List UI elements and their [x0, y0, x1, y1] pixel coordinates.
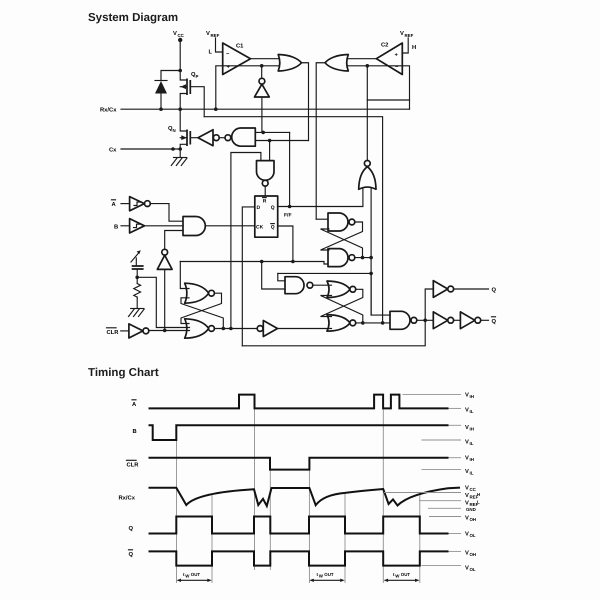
input buffer B (schmitt) [114, 219, 144, 233]
wire G3 right input [370, 188, 372, 315]
gridline t1 [176, 441, 178, 583]
wire INV3 output to latch L3 [278, 328, 332, 330]
wire L1 cross-couple bottom-to-top [181, 298, 223, 329]
svg-text:IH: IH [470, 457, 474, 462]
node VREF L [206, 31, 223, 56]
svg-text:IL: IL [470, 441, 474, 446]
wire Qp-gate net to output NAND [204, 117, 382, 323]
svg-text:Q: Q [129, 525, 134, 532]
input buffer A-bar (schmitt inverter) [112, 197, 151, 211]
svg-text:A: A [112, 202, 117, 208]
svg-text:IH: IH [470, 427, 474, 432]
svg-text:System Diagram: System Diagram [88, 12, 178, 24]
NAND latch L2 bottom gate [328, 249, 355, 267]
wire L3 output to output NAND [356, 322, 390, 324]
wire C1 plus input to Rx/Cx [216, 66, 279, 109]
node junction VCC/diode [178, 69, 182, 73]
gridline t3 [308, 470, 310, 583]
svg-text:V: V [465, 456, 469, 462]
svg-text:W: W [395, 574, 400, 579]
OR gate G1 [278, 55, 301, 72]
wire L2 cross-couple bottom-to-top [321, 229, 363, 258]
node C1 plus line junction [260, 64, 264, 68]
node L2out net junction [369, 272, 373, 276]
svg-text:Q: Q [492, 287, 497, 294]
svg-text:OUT: OUT [401, 572, 411, 577]
wire C1 output [251, 58, 279, 60]
svg-text:N: N [173, 128, 176, 133]
wire G3 left input [362, 188, 364, 206]
wire INV2 down to CLR line [164, 269, 166, 330]
NOR gate L3 top [327, 281, 356, 298]
svg-text:V: V [465, 440, 469, 446]
wire Q branch up [425, 289, 433, 320]
inverter INV4 (Q output) [433, 281, 453, 298]
wire N2 right input [269, 141, 271, 161]
svg-text:CLR: CLR [127, 462, 140, 469]
svg-text:A: A [132, 402, 137, 408]
svg-text:V: V [465, 516, 469, 522]
wire N3 top input from L2 output net [278, 273, 285, 280]
label tW OUT 1 [177, 572, 212, 582]
gridline t3 end [344, 493, 346, 583]
flip-flop F/F box [255, 196, 292, 237]
svg-text:−: − [226, 52, 230, 58]
wire N1 input A from inverter chain [255, 131, 289, 133]
svg-text:OH: OH [470, 552, 477, 557]
AND gate G4 [183, 217, 205, 236]
waveform Rx/Cx [119, 488, 462, 509]
transistor Qn [168, 109, 190, 156]
wire L2 output [355, 257, 371, 259]
wire L2 cross-couple top-to-bottom [321, 222, 363, 250]
wire AND output to FF CK [205, 225, 255, 227]
wire Qn gate [190, 137, 198, 139]
svg-text:CLR: CLR [107, 329, 120, 336]
waveform A-bar [132, 395, 461, 409]
wire N2 output to FF R [264, 186, 266, 196]
node L2 output junctions [361, 256, 365, 260]
wire CLR line to NOR latch [149, 330, 190, 332]
svg-text:+: + [395, 53, 399, 59]
capacitor C [132, 266, 144, 277]
wire G1 output down [302, 63, 309, 141]
svg-text:Timing Chart: Timing Chart [88, 367, 159, 379]
wire L2out net horizontal [278, 272, 371, 274]
label tW OUT 2 [309, 572, 344, 582]
wire to Q terminal [454, 288, 489, 290]
wire to Q-bar terminal [481, 319, 489, 321]
wire cross link to C2 minus vertical [367, 99, 409, 101]
svg-text:W: W [185, 574, 190, 579]
wire L2 top input [316, 218, 328, 220]
output NAND N4 [390, 311, 417, 329]
svg-text:V: V [206, 31, 210, 37]
trimmer arrow [131, 253, 139, 263]
svg-text:V: V [465, 493, 469, 499]
svg-text:B: B [114, 225, 118, 231]
svg-text:Cx: Cx [109, 147, 117, 154]
NAND N1 (left facing) [225, 128, 255, 146]
wire L3 cross-couple bottom-to-top [321, 296, 363, 323]
inverter INV2 (pointing up, CLR to AND) [157, 249, 172, 269]
gridline t2 [254, 409, 256, 571]
wire FF Q-bar output [278, 226, 293, 262]
svg-text:V: V [465, 425, 469, 431]
ground below Qn [171, 158, 187, 166]
inverter INV1 below C1 (pointing up) [255, 78, 270, 97]
wire INV5 to INV6 [454, 319, 461, 321]
transistor Qp [180, 71, 198, 110]
wire L1 output [214, 328, 257, 330]
svg-text:V: V [465, 501, 469, 507]
inverter INV6 (Q-bar chain 2) [460, 312, 480, 329]
wire Cx line [109, 147, 180, 154]
node L1 output junctions [222, 327, 226, 331]
inverter on Qn gate (left pointing, input bubble) [198, 130, 219, 146]
svg-text:CK: CK [256, 224, 264, 230]
node capacitor junction [135, 276, 139, 280]
wire L1 top input from Q-bar net [180, 262, 189, 289]
svg-text:B: B [133, 429, 137, 435]
wire FF D input from feedback [242, 207, 255, 346]
ground below resistor [129, 309, 145, 317]
svg-text:OL: OL [470, 533, 476, 538]
svg-text:CC: CC [470, 487, 477, 492]
svg-text:V: V [173, 31, 177, 37]
inverter INV5 (Q-bar chain 1) [433, 312, 453, 329]
input buffer CLR (inverter) [107, 324, 149, 338]
wire G2 output down [316, 63, 325, 219]
svg-text:V: V [465, 469, 469, 475]
node Q-bar net junctions [260, 260, 264, 264]
svg-text:F/F: F/F [284, 212, 292, 218]
labels right side levels [465, 393, 480, 573]
gridline t4 end [419, 495, 421, 583]
wire L1 cross-couple top-to-bottom [181, 293, 222, 323]
NOR gate G6 (latch L1 bottom) [185, 319, 215, 338]
wire Q-bar net down to NAND N3 [262, 262, 285, 290]
svg-text:Q: Q [492, 318, 497, 325]
svg-text:V: V [400, 31, 404, 37]
svg-text:GND: GND [466, 507, 476, 512]
waveform CLR [127, 458, 462, 470]
node N1 inA junction [261, 131, 265, 135]
wire C1 plus junction to INV1 [261, 66, 263, 79]
node L3 output junctions [361, 321, 365, 325]
svg-text:CC: CC [178, 33, 185, 38]
node VREF H [400, 31, 416, 53]
svg-text:H: H [412, 45, 416, 51]
node Cx junctions [171, 147, 175, 151]
node FF Q junction [288, 205, 292, 209]
NAND N3 (feeds latch L3) [285, 277, 313, 294]
wire VCC down to junction [179, 40, 181, 71]
gridline t4 [382, 409, 384, 584]
svg-text:OUT: OUT [191, 572, 201, 577]
resistor R [134, 277, 141, 308]
wire L3 cross-couple top-to-bottom [321, 289, 363, 316]
svg-text:V: V [465, 393, 469, 399]
waveform Q-bar [129, 550, 462, 566]
wire N3 output to L3 [313, 284, 332, 286]
wire INV1 down to N1 [261, 97, 263, 132]
svg-text:C1: C1 [236, 43, 244, 50]
svg-text:Q: Q [129, 551, 134, 558]
wire FF Q output [278, 206, 363, 208]
NAND latch L2 top gate [328, 213, 355, 231]
svg-text:P: P [196, 74, 199, 79]
node CLR junction [163, 329, 167, 333]
wire G3 output stem [366, 66, 368, 161]
gridline t1 end tick [211, 495, 213, 584]
svg-text:Q: Q [271, 205, 275, 211]
NOR gate L3 bottom [327, 315, 356, 332]
NOR gate G5 (latch L1 top) [185, 283, 215, 303]
wire feedback bottom line [242, 320, 425, 346]
wire Rx/Cx rail [100, 107, 410, 114]
node VCC [173, 31, 185, 42]
node Rx/Cx junctions [159, 107, 163, 111]
waveform B [133, 425, 462, 440]
comparator C1 [223, 43, 251, 75]
wire junction to diode top [161, 71, 180, 81]
svg-text:W: W [319, 574, 324, 579]
node N1 inB junction [268, 139, 272, 143]
wire C2 minus input line [348, 66, 410, 109]
svg-text:IL: IL [470, 471, 474, 476]
NOR gate G3 (pointing up) [359, 161, 376, 190]
svg-text:OL: OL [470, 567, 476, 572]
svg-text:REF: REF [211, 33, 220, 38]
svg-text:H: H [477, 492, 480, 497]
node C2 minus junction [366, 64, 370, 68]
wire bubble to NAND output bubble [219, 137, 225, 139]
label tW OUT 3 [384, 572, 420, 582]
svg-text:REF: REF [405, 33, 414, 38]
svg-text:R: R [263, 199, 267, 205]
wire arrow stub to capacitor [135, 258, 137, 266]
svg-text:V: V [465, 532, 469, 538]
svg-text:Q: Q [271, 224, 275, 230]
svg-text:Rx/Cx: Rx/Cx [119, 495, 136, 502]
svg-text:V: V [465, 486, 469, 492]
svg-text:L: L [477, 500, 480, 505]
node N4 output junction [423, 319, 427, 323]
wire N4 output [417, 319, 434, 321]
waveform Q [129, 517, 462, 534]
svg-text:OH: OH [470, 517, 477, 522]
svg-text:D: D [257, 205, 261, 211]
node Q-bar output label [492, 317, 497, 325]
wire A-bar to AND [150, 204, 183, 222]
wire cap junction to NOR latch [137, 277, 189, 327]
svg-text:OUT: OUT [324, 572, 334, 577]
gridline CLR fall [269, 467, 271, 570]
svg-text:IH: IH [470, 394, 474, 399]
wire Qp gate [190, 87, 204, 117]
wire C2 output [348, 58, 376, 60]
svg-text:L: L [209, 50, 213, 56]
svg-text:IL: IL [470, 409, 474, 414]
NAND N2 (pointing down, to FF R) [257, 161, 275, 187]
wire Q-bar net horizontal [180, 262, 328, 265]
OR gate G2 (left facing) [325, 55, 348, 72]
svg-text:C2: C2 [381, 42, 388, 49]
svg-text:Rx/Cx: Rx/Cx [100, 107, 117, 114]
wire N2 left input [231, 153, 261, 329]
svg-text:V: V [465, 551, 469, 557]
svg-text:V: V [465, 566, 469, 572]
comparator C2 [376, 42, 402, 75]
wire L2out net down to output NAND top input [371, 273, 390, 315]
svg-text:V: V [465, 408, 469, 414]
wire Q up to N1 input [289, 132, 291, 206]
wire INV2 to AND third input [165, 231, 183, 250]
inverter INV3 (input bubble, right pointing) [257, 321, 277, 337]
wire N1 input B [255, 140, 308, 142]
diode D1 [155, 81, 167, 110]
wire B to AND [144, 225, 183, 227]
